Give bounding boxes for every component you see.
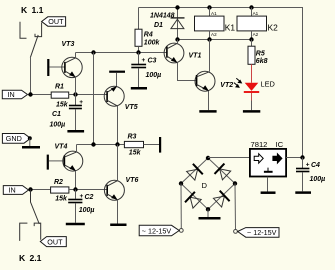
svg-text:K: K bbox=[19, 253, 26, 263]
svg-text:A1: A1 bbox=[253, 11, 259, 16]
wire relay coil bottom row y39.5 bbox=[178, 39, 252, 41]
transistor VT6 bbox=[104, 177, 138, 201]
node R2 / C2 / VT4 emitter bbox=[73, 187, 77, 191]
contact K1.1 right terminal bbox=[35, 23, 42, 37]
svg-text:C3: C3 bbox=[148, 58, 157, 65]
wire VT2 collector to K1 A2 bbox=[209, 40, 211, 72]
wire VT2 emitter down bbox=[208, 91, 210, 110]
ground under C4 bbox=[295, 191, 311, 194]
node K1 A2 bbox=[207, 37, 211, 41]
ground under C3 bbox=[131, 87, 147, 90]
transistor VT4 bbox=[55, 143, 83, 171]
sensor plate VT3 bbox=[47, 59, 49, 76]
svg-text:VT2: VT2 bbox=[220, 82, 233, 89]
svg-text:OUT: OUT bbox=[47, 237, 63, 246]
wire bridge top to 7812 bbox=[208, 157, 250, 159]
wire VT6 collector up bbox=[117, 145, 119, 181]
ground under LED bbox=[243, 110, 260, 113]
wire plate to VT5 emitter bbox=[116, 73, 118, 87]
svg-text:15k: 15k bbox=[129, 149, 142, 156]
svg-text:VT6: VT6 bbox=[126, 177, 139, 184]
svg-text:C1: C1 bbox=[52, 111, 61, 118]
ground under VT2 bbox=[199, 110, 216, 113]
svg-text:R1: R1 bbox=[55, 84, 64, 91]
svg-text:VT1: VT1 bbox=[189, 52, 202, 59]
node mid row / VT3 column bbox=[91, 142, 95, 146]
wire bridge left node down bbox=[180, 184, 182, 229]
node IN bottom / K2.1 bbox=[28, 187, 32, 191]
node rail / D1 bbox=[175, 5, 179, 9]
svg-text:VT3: VT3 bbox=[62, 41, 75, 48]
svg-text:+: + bbox=[79, 99, 83, 106]
node K2 A2 / R5 bbox=[249, 37, 253, 41]
wire red R5 to LED bbox=[251, 64, 253, 83]
wire VT6 emitter down bbox=[117, 200, 119, 224]
wire plate to VT4 base bbox=[49, 160, 65, 162]
ground under 7812 bbox=[261, 191, 276, 194]
capacitor C1 bbox=[50, 95, 84, 131]
wire VT4 collector to mid row bbox=[75, 145, 77, 153]
capacitor C3 bbox=[131, 53, 161, 88]
svg-text:7812: 7812 bbox=[251, 140, 268, 149]
node output / C4 bbox=[300, 155, 304, 159]
svg-text:VT4: VT4 bbox=[55, 143, 68, 150]
transistor VT1 bbox=[164, 43, 201, 63]
relay K1 coil bbox=[195, 8, 236, 40]
svg-text:+: + bbox=[142, 57, 146, 64]
svg-text:R5: R5 bbox=[256, 50, 265, 57]
ground bridge bottom bbox=[199, 209, 221, 218]
svg-text:15k: 15k bbox=[56, 101, 69, 108]
resistor R3 bbox=[124, 133, 143, 156]
svg-text:1N4148: 1N4148 bbox=[150, 13, 175, 20]
contact K2.1 left terminal bbox=[20, 223, 28, 241]
svg-text:6k8: 6k8 bbox=[256, 58, 268, 65]
wire bridge top edges bbox=[181, 158, 235, 209]
contact K1.1 fixed L terminal bbox=[20, 22, 27, 39]
svg-text:VT5: VT5 bbox=[125, 104, 138, 111]
svg-text:K: K bbox=[21, 5, 28, 15]
contact K2.1 wire from IN node bbox=[31, 190, 40, 225]
resistor R1 bbox=[51, 84, 69, 109]
wire column VT3 collector junction down to mid row bbox=[93, 53, 95, 145]
wire VT1 collector bbox=[177, 40, 179, 44]
svg-text:A2: A2 bbox=[253, 32, 259, 37]
label D bbox=[202, 181, 208, 190]
LED bbox=[244, 80, 275, 111]
node mid row / VT5 VT6 column bbox=[115, 142, 119, 146]
svg-text:2.1: 2.1 bbox=[30, 253, 42, 263]
node bridge top bbox=[206, 156, 210, 160]
svg-text:100µ: 100µ bbox=[79, 207, 95, 214]
svg-text:R4: R4 bbox=[144, 32, 153, 39]
node bridge right bbox=[233, 181, 237, 185]
resistor R5 bbox=[248, 40, 268, 66]
diode bridge D bottom-right bbox=[213, 191, 230, 208]
svg-text:100µ: 100µ bbox=[310, 176, 326, 183]
svg-text:+: + bbox=[306, 162, 310, 169]
ground under C1 bbox=[67, 130, 84, 133]
diode bridge D bottom-left bbox=[185, 192, 202, 209]
wire VT3 emitter down bbox=[75, 77, 77, 94]
resistor R2 bbox=[51, 179, 69, 202]
svg-text:IC: IC bbox=[276, 140, 284, 149]
wire R2 to VT6 base bbox=[69, 189, 107, 191]
svg-text:GND: GND bbox=[6, 134, 22, 143]
wire bridge right node down bbox=[234, 184, 237, 230]
wire mid row y144.5 bbox=[77, 144, 125, 146]
wire R4 top feed bbox=[138, 8, 140, 30]
tag ~12-15V right bbox=[238, 228, 279, 238]
svg-text:A2: A2 bbox=[211, 32, 217, 37]
transistor VT5 bbox=[104, 86, 138, 111]
svg-text:K1: K1 bbox=[225, 23, 236, 33]
ground under C2 bbox=[66, 223, 85, 226]
ground under VT6 bbox=[110, 224, 126, 227]
svg-text:D: D bbox=[202, 181, 208, 190]
svg-text:15k: 15k bbox=[55, 195, 68, 202]
svg-text:C2: C2 bbox=[85, 194, 94, 201]
sensor plate VT4 bbox=[47, 155, 49, 170]
svg-text:A1: A1 bbox=[211, 11, 217, 16]
node R1 / C1 / VT3 emitter bbox=[73, 92, 77, 96]
regulator IC 7812 bbox=[250, 140, 286, 176]
tag GND bbox=[2, 134, 31, 147]
diode bridge D top-right bbox=[215, 164, 232, 181]
ground under GND tag bbox=[22, 146, 40, 149]
tag ~12-15V left bbox=[139, 225, 179, 236]
tag OUT top bbox=[42, 17, 66, 26]
svg-text:IN: IN bbox=[8, 90, 15, 99]
svg-text:LED: LED bbox=[261, 80, 275, 89]
svg-text:~ 12-15V: ~ 12-15V bbox=[142, 226, 172, 235]
svg-text:C4: C4 bbox=[311, 162, 320, 169]
wire R1 to VT5 base bbox=[69, 94, 107, 96]
capacitor C2 bbox=[68, 190, 94, 223]
svg-text:D1: D1 bbox=[154, 22, 163, 29]
wire IN row to R1 bbox=[28, 94, 52, 96]
wire plate to VT3 base bbox=[49, 66, 65, 68]
wire R3 to plate bbox=[144, 144, 160, 146]
node base row / VT3 collector column bbox=[91, 50, 95, 54]
svg-text:IN: IN bbox=[9, 186, 16, 195]
label K 2.1 bbox=[19, 253, 42, 263]
capacitor C4 bbox=[296, 158, 325, 192]
wire base row y52.7 bbox=[76, 52, 167, 54]
svg-text:+: + bbox=[80, 193, 84, 200]
tag IN bottom bbox=[3, 186, 28, 195]
relay K2 coil bbox=[237, 8, 278, 40]
LED arrows bbox=[234, 78, 242, 88]
sensor plate VT5 emitter bbox=[109, 71, 125, 73]
node base row / C3 column bbox=[136, 50, 140, 54]
svg-text:100k: 100k bbox=[144, 39, 161, 46]
node IN / K1.1 bbox=[28, 92, 32, 96]
wire VT4 emitter down bbox=[75, 171, 77, 190]
wire K1.1 down to IN row bbox=[30, 58, 32, 95]
svg-text:~ 12-15V: ~ 12-15V bbox=[247, 228, 277, 237]
node bridge bottom bbox=[206, 207, 210, 211]
svg-text:100µ: 100µ bbox=[50, 121, 66, 128]
svg-text:OUT: OUT bbox=[48, 17, 64, 26]
label K 1.1 bbox=[21, 5, 44, 15]
tag IN top bbox=[2, 90, 27, 99]
svg-text:1.1: 1.1 bbox=[32, 5, 44, 15]
terminal circle left bbox=[179, 229, 183, 233]
wire IN bottom row bbox=[29, 189, 51, 191]
wire top supply rail bbox=[139, 8, 303, 158]
svg-text:K2: K2 bbox=[268, 23, 279, 33]
terminal circle right bbox=[234, 230, 238, 234]
node bridge left bbox=[179, 181, 183, 185]
resistor R4 bbox=[135, 29, 160, 46]
node rail / K1 bbox=[207, 5, 211, 9]
contact K1.1 blade bbox=[30, 35, 38, 58]
wire 7812 output bbox=[286, 157, 302, 159]
diode D1 1N4148 bbox=[150, 8, 185, 40]
diode bridge D top-left bbox=[186, 164, 203, 181]
svg-text:R3: R3 bbox=[128, 133, 137, 140]
svg-text:100µ: 100µ bbox=[146, 72, 162, 79]
transistor VT3 bbox=[62, 41, 83, 78]
svg-text:R2: R2 bbox=[54, 179, 63, 186]
contact K2.1 right terminal bbox=[34, 223, 41, 240]
wire 7812 ground pin bbox=[267, 177, 269, 192]
wire R4 bottom to base row bbox=[138, 46, 140, 52]
wire VT1 emitter to VT2 base bbox=[178, 63, 197, 81]
sensor plate R3 bbox=[159, 137, 161, 153]
node rail / K2 bbox=[249, 5, 253, 9]
wire VT3 collector to base row bbox=[75, 53, 77, 58]
wire VT5 collector down bbox=[117, 106, 119, 145]
tag OUT bottom bbox=[40, 237, 66, 247]
transistor VT2 bbox=[195, 71, 233, 91]
node D1/VT1 collector bbox=[175, 37, 179, 41]
